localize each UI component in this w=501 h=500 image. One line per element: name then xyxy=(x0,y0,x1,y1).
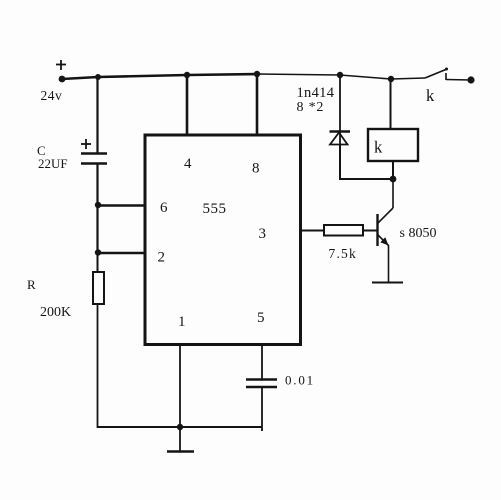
svg-text:3: 3 xyxy=(259,226,267,242)
wire resistor to base xyxy=(363,230,377,232)
svg-text:2: 2 xyxy=(158,250,166,266)
relay K coil box xyxy=(368,129,418,161)
svg-text:6: 6 xyxy=(160,200,168,216)
wire switch to terminal xyxy=(446,79,471,82)
wire top power rail left (thick) xyxy=(62,74,257,79)
node junction at capacitor branch xyxy=(95,74,101,80)
wire emitter down xyxy=(388,245,390,282)
wire diode to junction xyxy=(340,144,393,179)
resistor R2 7.5k body xyxy=(324,225,363,236)
svg-text:s 8050: s 8050 xyxy=(400,226,437,241)
label + (supply polarity) xyxy=(56,60,66,70)
wire node to resistor R xyxy=(97,253,99,272)
wire relay coil to junction xyxy=(392,161,394,179)
transistor emitter arrowhead xyxy=(380,237,388,245)
svg-text:5: 5 xyxy=(257,310,265,326)
node junction pin2 tap xyxy=(95,249,101,255)
svg-text:555: 555 xyxy=(203,201,227,217)
svg-text:k: k xyxy=(426,86,435,105)
node junction pin8 on rail xyxy=(254,71,260,77)
capacitor C2 0.01 plates xyxy=(246,380,277,388)
node terminal dot right xyxy=(467,76,474,83)
transistor emitter diagonal xyxy=(378,235,389,246)
wire bottom rail xyxy=(97,426,262,428)
wire collector up to node xyxy=(392,179,394,208)
wire pin 3 out xyxy=(301,230,325,232)
ground stem xyxy=(179,427,181,451)
switch K blade xyxy=(425,69,447,78)
switch contact tick xyxy=(445,73,447,80)
transistor Q1 s8050 base bar xyxy=(376,214,378,246)
svg-text:4: 4 xyxy=(184,156,192,172)
wire capacitor branch down xyxy=(96,77,98,153)
wire to pin 2 xyxy=(97,252,145,255)
node junction pin6 tap xyxy=(95,202,101,208)
ground bar xyxy=(167,450,194,453)
wire pin 5 stub down xyxy=(261,345,263,381)
wire pin 8 stub xyxy=(256,74,259,135)
svg-text:0.01: 0.01 xyxy=(285,373,315,388)
diode D1 cathode bar xyxy=(330,130,351,133)
wire diode anode-to-rail xyxy=(339,75,341,145)
node junction ground tap xyxy=(177,424,183,430)
node junction relay branch on rail xyxy=(388,76,394,82)
wire capacitor 0.01 to bottom rail xyxy=(261,387,263,431)
ground bar at emitter xyxy=(372,282,403,284)
svg-text:200K: 200K xyxy=(40,305,71,320)
svg-text:R: R xyxy=(27,277,36,292)
node junction diode branch on rail xyxy=(337,72,343,78)
node junction pin4 on rail xyxy=(184,72,190,78)
wire from capacitor down to pin6 node xyxy=(96,164,98,254)
svg-text:8: 8 xyxy=(252,161,260,177)
transistor collector diagonal xyxy=(378,208,393,223)
node junction diode/relay/collector xyxy=(390,176,397,183)
svg-text:k: k xyxy=(374,138,383,157)
wire pin 4 stub xyxy=(186,75,189,135)
svg-text:8 *2: 8 *2 xyxy=(297,100,325,115)
resistor R 200K body xyxy=(93,272,104,304)
op-amp/timer IC U1 555 body xyxy=(145,135,301,345)
wire relay coil to rail xyxy=(390,79,392,129)
wire resistor to bottom rail xyxy=(97,304,99,428)
svg-text:7.5k: 7.5k xyxy=(329,246,357,261)
svg-text:22UF: 22UF xyxy=(38,156,68,171)
capacitor C 22UF plates xyxy=(81,154,107,164)
label + (capacitor polarity) xyxy=(81,139,91,149)
wire pin 1 stub to bottom rail xyxy=(179,345,181,429)
node terminal dot left xyxy=(59,76,66,83)
switch blade tip dot xyxy=(445,68,448,71)
wire to pin 6 xyxy=(97,204,145,207)
svg-text:1: 1 xyxy=(178,314,186,330)
diode D1 triangle xyxy=(330,133,348,145)
svg-text:24v: 24v xyxy=(41,88,63,103)
svg-text:1n414: 1n414 xyxy=(297,85,335,101)
wire top power rail right (thin) xyxy=(257,74,425,79)
